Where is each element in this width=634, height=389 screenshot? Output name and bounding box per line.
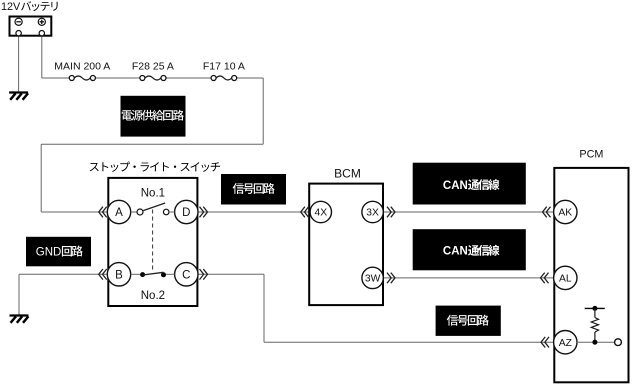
svg-text:C: C: [182, 269, 190, 281]
svg-text:AZ: AZ: [559, 338, 572, 349]
svg-text:BCM: BCM: [334, 166, 361, 180]
svg-text:CAN: CAN: [443, 180, 468, 192]
svg-text:AK: AK: [558, 208, 572, 219]
svg-text:CAN: CAN: [443, 246, 468, 258]
svg-text:No.2: No.2: [141, 290, 165, 302]
svg-text:GND: GND: [36, 246, 62, 258]
svg-text:12V: 12V: [1, 1, 21, 13]
svg-text:MAIN 200 A: MAIN 200 A: [54, 61, 110, 73]
svg-text:3X: 3X: [366, 208, 379, 219]
svg-text:D: D: [182, 207, 190, 219]
svg-text:No.1: No.1: [141, 188, 165, 200]
svg-text:B: B: [115, 269, 123, 281]
svg-text:4X: 4X: [314, 208, 327, 219]
svg-text:PCM: PCM: [579, 149, 603, 161]
svg-text:F28 25 A: F28 25 A: [132, 61, 174, 73]
svg-text:3W: 3W: [365, 274, 381, 285]
svg-text:AL: AL: [559, 274, 572, 285]
svg-text:A: A: [115, 207, 123, 219]
svg-text:F17 10 A: F17 10 A: [203, 61, 245, 73]
